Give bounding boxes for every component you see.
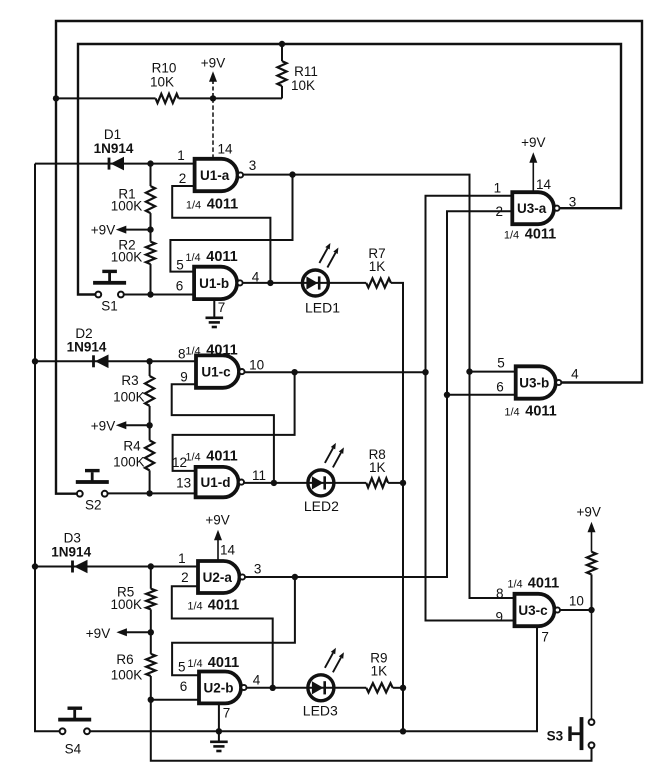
- power +9V (top rail): [201, 56, 225, 99]
- wire U1-c output to U1-d pin 12 (cross coupling): [173, 372, 295, 471]
- wire S2 to U1-d pin 13: [108, 492, 196, 494]
- op-amp U2-b (NAND gate): [199, 672, 246, 704]
- wire U1-a pin 14 to +9V rail: [212, 98, 214, 158]
- label U1-d 1/4 4011: [185, 449, 237, 465]
- label U1-b 1/4 4011: [185, 249, 237, 265]
- wire U3-a pin1 / U3-c pin9 bus: [426, 196, 515, 621]
- svg-text:9: 9: [496, 610, 504, 625]
- svg-text:3: 3: [249, 158, 257, 173]
- diode D2 1N914: [35, 326, 196, 368]
- svg-text:5: 5: [178, 660, 186, 675]
- svg-text:LED1: LED1: [305, 300, 340, 316]
- wire U2-b output to U2-a pin 2 (cross coupling): [172, 586, 273, 688]
- svg-text:100K: 100K: [113, 390, 145, 405]
- op-amp U1-a (NAND gate): [195, 159, 243, 191]
- svg-text:U3-a: U3-a: [517, 201, 547, 216]
- node D2 reset-bus tap: [32, 358, 38, 364]
- node R10 rail taps: [53, 95, 216, 101]
- wire R7 to LED return bus: [391, 283, 403, 731]
- resistor R9 1K: [366, 651, 392, 693]
- svg-text:U1-a: U1-a: [200, 168, 230, 183]
- wire R8 to LED return bus: [388, 482, 403, 484]
- wire diode reset bus (D1/D2/D3 common to S4): [35, 164, 60, 732]
- svg-text:10: 10: [569, 594, 584, 609]
- svg-text:1/4: 1/4: [185, 252, 200, 264]
- wire U1-d output to LED2: [244, 482, 366, 484]
- svg-text:4011: 4011: [528, 576, 559, 592]
- U1-d pin labels 12,13,11: [172, 455, 266, 491]
- svg-text:14: 14: [217, 142, 233, 157]
- svg-text:1/4: 1/4: [185, 346, 200, 358]
- svg-text:D1: D1: [104, 127, 121, 142]
- node U3-b pin 5 bus junction: [466, 368, 472, 374]
- wire U3-b pin 5: [470, 371, 515, 373]
- node R2 / S1 junction: [147, 291, 153, 297]
- svg-text:1N914: 1N914: [94, 141, 134, 156]
- svg-text:R6: R6: [116, 652, 133, 667]
- wire U1-d output to U1-c pin 9 (cross coupling): [172, 384, 274, 483]
- U3-b pin labels 5,6,4: [496, 356, 579, 395]
- wire U1-c output pin 10 to U3 bus: [245, 371, 426, 373]
- wire S1 to U1-b pin 6: [124, 294, 194, 296]
- svg-text:U1-d: U1-d: [201, 475, 231, 490]
- LED2: [304, 443, 344, 514]
- node U3-b pin 6 bus junction: [444, 392, 450, 398]
- U1-b pin labels 5,6,4,7: [176, 258, 260, 316]
- resistor R5 100K: [111, 567, 156, 654]
- svg-text:2: 2: [181, 570, 189, 585]
- diode D3 1N914: [35, 531, 197, 574]
- svg-text:100K: 100K: [111, 597, 143, 612]
- resistor R6 100K: [111, 652, 156, 700]
- svg-text:R3: R3: [121, 373, 138, 388]
- svg-text:S2: S2: [85, 498, 102, 513]
- wire U3-c output to S3: [591, 610, 593, 719]
- svg-text:11: 11: [252, 468, 266, 483]
- power +9V tap (latch 2): [91, 419, 153, 434]
- svg-text:R11: R11: [294, 64, 318, 79]
- svg-text:14: 14: [536, 177, 552, 192]
- label U2-a 1/4 4011: [187, 598, 239, 614]
- node pin7 / ground-rail junction: [216, 728, 222, 734]
- svg-text:5: 5: [176, 258, 184, 273]
- svg-text:7: 7: [218, 300, 226, 315]
- svg-text:S4: S4: [65, 742, 82, 757]
- svg-text:3: 3: [569, 195, 577, 210]
- svg-text:+9V: +9V: [91, 223, 115, 238]
- svg-text:1K: 1K: [369, 460, 386, 475]
- resistor (pull-up to +9V at S3): [587, 539, 596, 611]
- svg-text:13: 13: [176, 476, 191, 491]
- op-amp U3-c (NAND gate): [515, 594, 561, 626]
- svg-text:LED3: LED3: [303, 703, 338, 719]
- node U3-c output junction: [588, 607, 594, 613]
- pushbutton S1: [93, 270, 126, 314]
- node U1-c output junction: [291, 369, 297, 375]
- wire U2-a output to U2-b pin 5 (cross coupling): [172, 577, 295, 675]
- op-amp U1-c (NAND gate): [196, 355, 244, 387]
- svg-text:+9V: +9V: [86, 626, 110, 641]
- wire +9V rail through R10: [56, 97, 282, 99]
- op-amp U3-b (NAND gate): [516, 366, 562, 398]
- svg-text:1/4: 1/4: [507, 579, 522, 591]
- svg-text:1/4: 1/4: [185, 452, 200, 464]
- node R6 / U2-b pin 6 junction: [148, 697, 154, 703]
- node R8 bus junction: [400, 480, 406, 486]
- power +9V tap (latch 1): [91, 223, 154, 238]
- node R9 bus junction: [400, 685, 406, 691]
- svg-text:8: 8: [496, 586, 504, 601]
- svg-text:100K: 100K: [111, 668, 143, 683]
- svg-text:1: 1: [494, 181, 502, 196]
- svg-text:10K: 10K: [291, 78, 315, 93]
- svg-text:4011: 4011: [207, 197, 238, 213]
- node U1-d output junction: [271, 480, 277, 486]
- svg-text:1/4: 1/4: [504, 230, 519, 242]
- wire U3-b output feedback (outer border loop to S2): [56, 21, 642, 494]
- svg-text:100K: 100K: [111, 199, 143, 214]
- ground (U2-b pin 7): [210, 703, 228, 751]
- wire U1-a output to U1-b pin 5 (cross coupling): [170, 175, 292, 272]
- svg-text:S3: S3: [547, 729, 564, 744]
- svg-text:4: 4: [253, 673, 261, 688]
- wire U3-c output pin 10: [560, 609, 592, 611]
- node LED return bus to ground rail: [400, 728, 406, 734]
- wire R6 bus to S3 (bottom rail): [151, 700, 592, 761]
- wire U1-a output pin 3 to U3-b pin 5 bus: [243, 175, 514, 598]
- svg-text:1/4: 1/4: [187, 658, 202, 670]
- diode D1 1N914: [35, 127, 195, 170]
- svg-text:6: 6: [496, 380, 504, 395]
- wire U2-a output pin 3 to U3-a pin 2 bus: [245, 211, 512, 577]
- power +9V (U2-a pin 14): [205, 513, 235, 562]
- svg-text:4011: 4011: [525, 227, 556, 243]
- label U1-a 1/4 4011: [186, 197, 238, 213]
- svg-text:4011: 4011: [208, 598, 239, 614]
- node R11 top junction: [279, 41, 285, 47]
- power +9V (U3-a pin 14): [521, 135, 551, 192]
- LED1: [302, 243, 340, 316]
- svg-text:100K: 100K: [113, 455, 145, 470]
- svg-text:4: 4: [571, 367, 579, 382]
- node D2 / R3 junction: [146, 358, 152, 364]
- resistor R2 100K: [111, 238, 155, 295]
- svg-text:+9V: +9V: [205, 513, 229, 528]
- svg-text:2: 2: [496, 204, 504, 219]
- wire ground rail (S4 to U3-c pin 7): [90, 626, 537, 731]
- wire U1-b output to U1-a pin 2 (cross coupling): [172, 186, 270, 283]
- node U1-b output junction: [267, 280, 273, 286]
- svg-text:1: 1: [178, 551, 186, 566]
- resistor R7 1K: [366, 246, 391, 288]
- svg-text:9: 9: [180, 370, 188, 385]
- svg-text:4011: 4011: [206, 449, 237, 465]
- svg-text:U1-b: U1-b: [199, 276, 229, 291]
- power +9V tap (latch 3): [86, 626, 154, 641]
- node D3 / R5 junction: [148, 563, 154, 569]
- label U3-b 1/4 4011: [504, 404, 556, 420]
- pushbutton S4: [58, 707, 91, 757]
- label U1-c 1/4 4011: [185, 343, 237, 359]
- op-amp U1-d (NAND gate): [196, 467, 244, 497]
- svg-text:14: 14: [220, 543, 236, 558]
- node U2-a output junction: [292, 574, 298, 580]
- pushbutton S2: [76, 469, 109, 513]
- resistor R11: [277, 44, 317, 98]
- svg-text:1N914: 1N914: [67, 340, 107, 355]
- svg-text:7: 7: [223, 706, 231, 721]
- resistor R1 100K: [111, 164, 155, 242]
- svg-text:5: 5: [497, 356, 505, 371]
- resistor R10: [150, 61, 179, 104]
- svg-text:S1: S1: [101, 299, 118, 314]
- svg-text:4011: 4011: [206, 249, 237, 265]
- U2-b pin labels 5,6,4,7: [178, 660, 261, 721]
- node D3 reset-bus tap: [32, 563, 38, 569]
- wire U3-a output feedback (inner border loop to S1): [78, 44, 621, 295]
- svg-text:1K: 1K: [369, 259, 386, 274]
- svg-text:+9V: +9V: [201, 56, 225, 71]
- U1-c pin labels 8,9,10: [178, 347, 264, 385]
- svg-text:1N914: 1N914: [51, 545, 91, 560]
- svg-text:R10: R10: [152, 61, 177, 76]
- resistor R8 1K: [366, 447, 388, 488]
- U3-a pin labels 1,2,3: [494, 181, 577, 220]
- op-amp U1-b (NAND gate): [194, 267, 242, 299]
- svg-text:1/4: 1/4: [187, 601, 202, 613]
- svg-text:7: 7: [541, 630, 549, 645]
- svg-text:4011: 4011: [206, 343, 237, 359]
- svg-text:1K: 1K: [371, 664, 388, 679]
- wire R9 to LED return bus: [393, 687, 403, 689]
- svg-text:1: 1: [177, 148, 185, 163]
- svg-text:100K: 100K: [111, 250, 143, 265]
- svg-text:10: 10: [249, 358, 264, 373]
- node R4 / S2 junction: [146, 490, 152, 496]
- svg-text:R4: R4: [123, 439, 141, 454]
- wire U1-b output to LED1: [243, 282, 367, 284]
- svg-text:U2-a: U2-a: [203, 570, 233, 585]
- U3-c pin labels 8,9,10,7: [496, 586, 584, 645]
- svg-text:4011: 4011: [525, 404, 556, 420]
- label U3-a 1/4 4011: [504, 227, 556, 243]
- wire U2-b pin 6: [151, 699, 199, 701]
- svg-text:+9V: +9V: [576, 505, 600, 520]
- wire U2-b output to LED3: [247, 687, 367, 689]
- node D1 / R1 junction: [147, 160, 153, 166]
- svg-text:U3-c: U3-c: [518, 603, 548, 618]
- svg-text:D3: D3: [64, 531, 81, 546]
- svg-text:+9V: +9V: [91, 419, 115, 434]
- wire U3-b pin 6: [447, 394, 514, 396]
- svg-text:6: 6: [180, 679, 188, 694]
- LED3: [303, 648, 344, 719]
- ground (U1-b pin 7): [206, 299, 224, 327]
- svg-text:10K: 10K: [150, 75, 174, 90]
- svg-text:1/4: 1/4: [186, 200, 201, 212]
- label U2-b 1/4 4011: [187, 655, 239, 671]
- op-amp U3-a (NAND gate): [512, 192, 559, 224]
- node U2-b output junction: [270, 685, 276, 691]
- op-amp U2-a (NAND gate): [198, 561, 245, 593]
- svg-text:2: 2: [179, 171, 187, 186]
- power +9V (S3 pull-up): [576, 505, 600, 539]
- svg-text:LED2: LED2: [304, 498, 339, 514]
- U2-a pin labels 1,2,3: [178, 551, 261, 585]
- svg-text:1/4: 1/4: [504, 407, 519, 419]
- svg-text:U1-c: U1-c: [201, 365, 231, 380]
- resistor R3 100K: [113, 361, 154, 440]
- svg-text:3: 3: [254, 562, 262, 577]
- svg-text:+9V: +9V: [521, 135, 545, 150]
- svg-text:U2-b: U2-b: [204, 680, 234, 695]
- svg-text:U3-b: U3-b: [519, 376, 549, 391]
- node U1-a output junction: [289, 171, 295, 177]
- node bus junction (U1-c out to U3-a/U3-c): [422, 369, 428, 375]
- pushbutton S3 (vertical): [547, 717, 595, 750]
- label U3-c 1/4 4011: [507, 576, 559, 592]
- svg-text:6: 6: [176, 279, 184, 294]
- svg-text:4011: 4011: [208, 655, 239, 671]
- resistor R4 100K: [113, 439, 154, 494]
- U1-a pin labels 1,2,3,14: [177, 142, 256, 187]
